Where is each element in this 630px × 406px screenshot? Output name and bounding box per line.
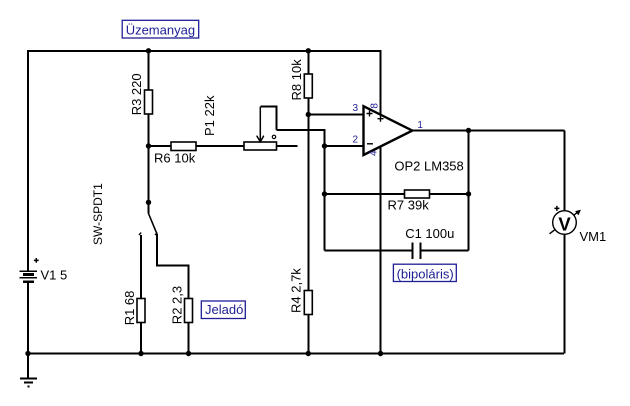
wire feedback vertical [324,146,326,251]
svg-text:V1 5: V1 5 [41,268,68,283]
svg-text:(bipoláris): (bipoláris) [397,266,454,281]
svg-text:R6 10k: R6 10k [154,150,196,165]
wire bottom rail [27,353,564,355]
svg-text:R8 10k: R8 10k [289,59,304,101]
junction bottom R4 [306,351,311,356]
svg-text:C1 100u: C1 100u [405,226,454,241]
wire R4 bottom lead [307,315,309,354]
wire left rail lower [27,283,29,378]
wire output right vertical [563,131,565,211]
junction output [466,128,471,133]
wire R8 bottom lead [307,98,309,115]
node Jeladó label [201,301,245,319]
resistor R1 [122,291,145,326]
wire P1 right lead [277,145,298,147]
junction pin3 [306,112,311,117]
wire R2 branch [157,234,189,354]
svg-text:R2 2,3: R2 2,3 [170,286,185,324]
potentiometer P1 [202,95,277,150]
junction switch common [146,200,151,205]
wire R3 bottom lead [148,114,150,146]
svg-text:Jeladó: Jeladó [205,302,243,317]
wire R8 top lead [307,50,309,74]
svg-text:R3 220: R3 220 [129,73,144,115]
junction bottom R2 [186,351,191,356]
wire left rail upper [27,50,29,271]
wire switch common [148,146,150,214]
wire op-amp pin2 [325,145,364,147]
battery V1 [20,258,68,283]
resistor R4 [289,268,313,315]
svg-text:OP2 LM358: OP2 LM358 [394,159,463,174]
resistor R7 [388,190,430,213]
svg-text:VM1: VM1 [580,229,607,244]
node Üzemanyag label [122,20,199,38]
wire C1 row [325,250,469,252]
junction R8 top [306,48,311,53]
junction R3 top [146,48,151,53]
svg-text:R1 68: R1 68 [122,291,137,326]
node bipoláris label [393,264,456,281]
junction R7 right [466,191,471,196]
wire R8-R4 vertical [307,115,309,291]
svg-text:1: 1 [417,120,423,131]
wire supply bottom [380,146,382,354]
wire top rail [27,50,381,52]
wire VM1 to bottom rail [563,234,565,353]
svg-text:3: 3 [353,103,359,114]
junction bottom left [25,351,30,356]
svg-text:8: 8 [370,103,381,109]
wire R1 branch [140,235,142,354]
wire R6 to P1 [196,145,244,147]
resistor R2 [170,286,193,324]
svg-text:4: 4 [369,150,380,156]
voltmeter VM1 [550,206,607,244]
junction pin2 [322,143,327,148]
capacitor C1 [405,226,454,259]
ground [20,378,37,386]
wire supply top [380,50,382,115]
resistor R3 [129,73,153,115]
switch SW-SPDT1 [91,183,158,245]
resistor R6 [154,142,196,165]
svg-text:R4 2,7k: R4 2,7k [289,268,304,313]
svg-text:Üzemanyag: Üzemanyag [126,23,195,38]
wire R7 row [325,193,469,195]
svg-text:P1 22k: P1 22k [202,95,217,136]
wire P1 wiper top [260,107,276,130]
wire wiper to pin2 node [277,130,325,146]
wire feedback right vertical [468,131,470,251]
junction bottom R1 [138,351,143,356]
junction R7 left [322,191,327,196]
svg-text:R7 39k: R7 39k [388,198,430,213]
resistor R8 [289,59,313,101]
junction R6 left [146,143,151,148]
wire R3 top lead [148,50,150,90]
wire R6 left lead [149,145,172,147]
wire output [412,130,564,132]
svg-text:V: V [558,213,571,234]
op-amp OP2 [353,103,464,174]
svg-text:SW-SPDT1: SW-SPDT1 [91,183,105,245]
wire op-amp pin3 [308,114,363,116]
junction bottom supply [378,351,383,356]
svg-text:2: 2 [353,135,359,146]
